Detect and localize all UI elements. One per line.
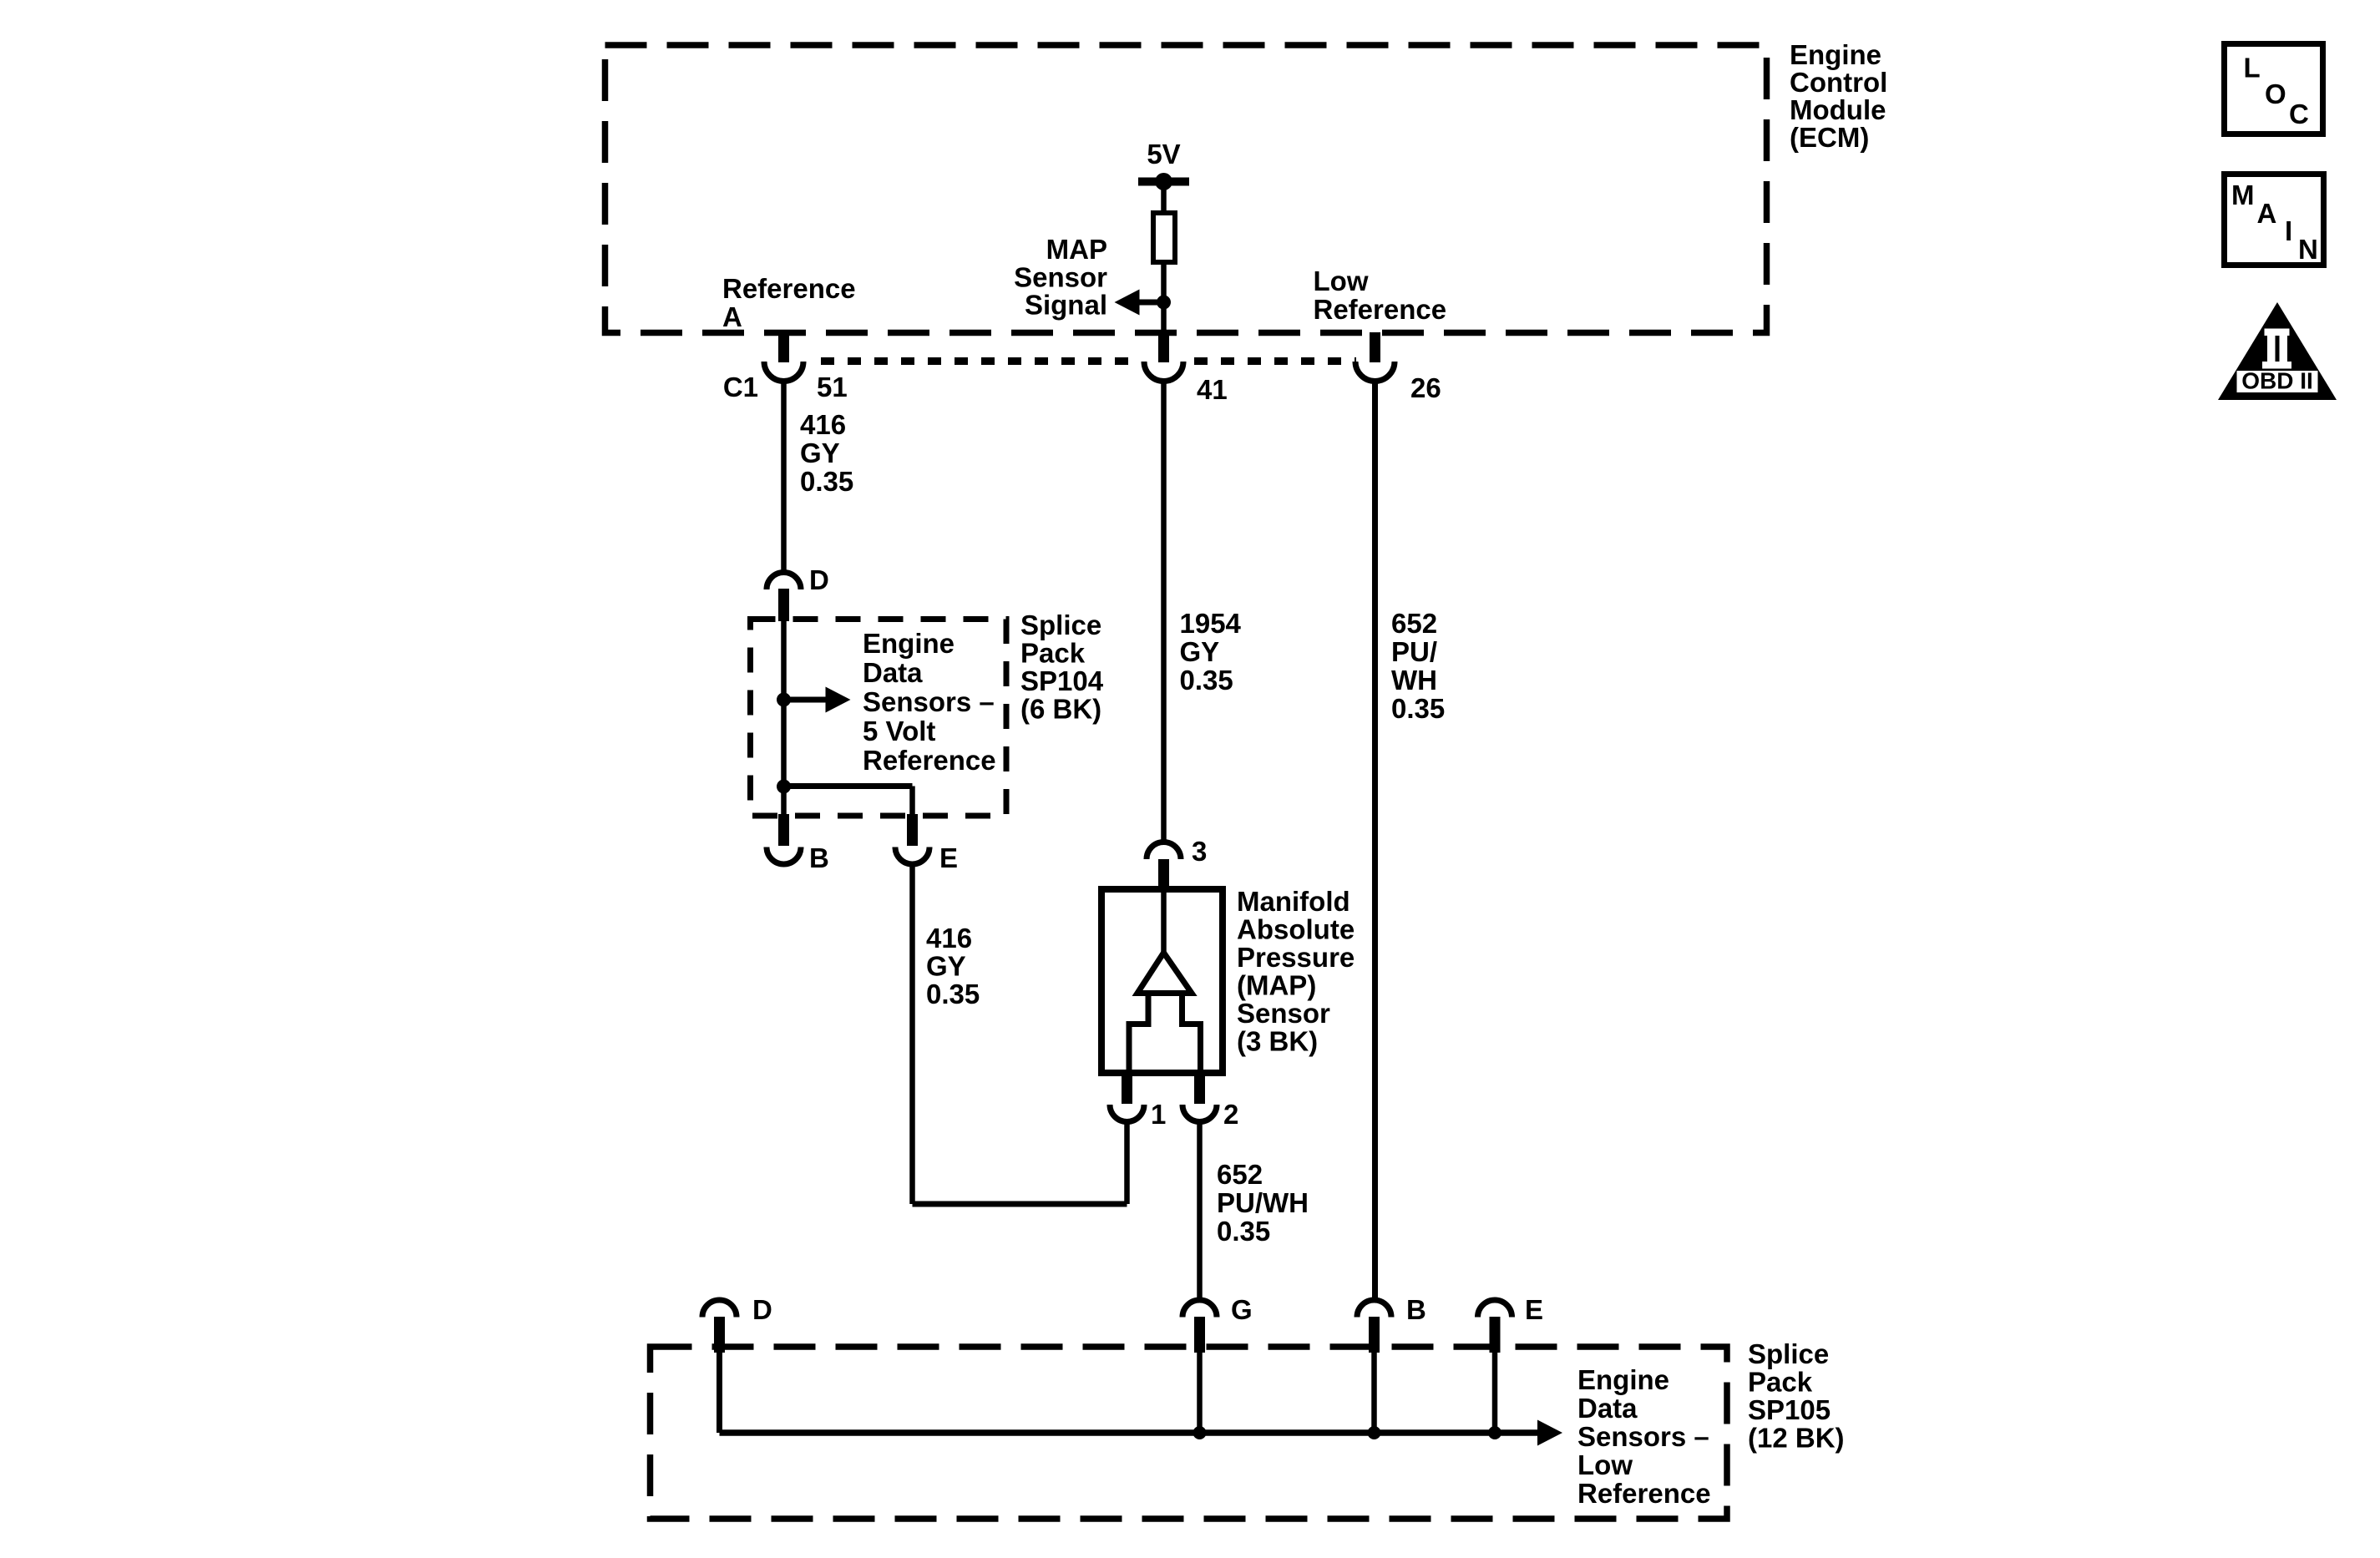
node MAP Sensor Signal junction dot [1157, 296, 1171, 310]
Splice Pack SP105 dashed box [651, 1347, 1728, 1519]
MAP sensing element triangle [1137, 953, 1192, 994]
wire branch to connector E [784, 783, 913, 789]
wire rise to MAP pin 1 [1124, 1119, 1130, 1204]
svg-text:(6 BK): (6 BK) [1020, 694, 1101, 725]
svg-text:Reference: Reference [1314, 294, 1447, 325]
wire splice bus D to B inside SP104 [781, 621, 787, 816]
Manifold Absolute Pressure (MAP) Sensor box [1101, 889, 1223, 1073]
wire B to bus [1371, 1351, 1377, 1433]
svg-text:D: D [752, 1294, 772, 1325]
wire resistor to signal node [1161, 262, 1167, 302]
arrow to Engine Data Sensors 5 Volt Reference [826, 687, 851, 713]
svg-text:Engine: Engine [1577, 1364, 1669, 1395]
svg-text:OBD II: OBD II [2241, 368, 2313, 394]
connector E (SP104) stub [907, 814, 918, 846]
svg-text:41: 41 [1197, 374, 1228, 405]
svg-text:Sensor: Sensor [1014, 261, 1107, 292]
junction dot splice branch to E [777, 780, 791, 794]
svg-text:Sensor: Sensor [1237, 998, 1330, 1029]
junction dot E [1488, 1426, 1501, 1439]
Splice Pack SP104 dashed box [751, 620, 1007, 817]
svg-text:0.35: 0.35 [1180, 665, 1233, 696]
svg-text:N: N [2298, 234, 2318, 265]
svg-text:652: 652 [1391, 608, 1437, 639]
svg-text:Low: Low [1314, 266, 1369, 296]
svg-text:3: 3 [1192, 836, 1207, 867]
svg-text:Pack: Pack [1020, 638, 1086, 669]
svg-text:SP104: SP104 [1020, 665, 1104, 696]
svg-text:416: 416 [926, 923, 972, 954]
svg-text:C1: C1 [723, 372, 758, 402]
LOC legend box [2225, 44, 2323, 134]
svg-text:26: 26 [1410, 372, 1441, 403]
connector B (SP104) cup [767, 847, 801, 865]
wire horizontal run to MAP pin 1 [913, 1201, 1127, 1207]
connector D (SP104) arch [767, 572, 801, 589]
svg-text:(MAP): (MAP) [1237, 970, 1316, 1001]
svg-text:Sensors –: Sensors – [863, 686, 995, 717]
svg-text:51: 51 [817, 372, 848, 402]
svg-text:M: M [2231, 180, 2255, 210]
svg-text:Module: Module [1790, 94, 1886, 125]
connector G stub [1194, 1317, 1205, 1353]
svg-text:WH: WH [1391, 665, 1437, 696]
svg-text:Control: Control [1790, 67, 1887, 98]
svg-text:E: E [939, 842, 958, 873]
svg-text:Reference: Reference [722, 273, 856, 304]
svg-text:Absolute: Absolute [1237, 914, 1355, 945]
junction dot B [1368, 1426, 1381, 1439]
svg-text:C: C [2289, 99, 2309, 129]
svg-text:652: 652 [1217, 1159, 1263, 1190]
svg-text:B: B [1406, 1294, 1426, 1325]
svg-text:PU/: PU/ [1391, 636, 1437, 667]
connector G arch [1182, 1300, 1217, 1318]
connector C1 face line (dotted) [821, 357, 1142, 365]
OBD II triangle symbol [2218, 302, 2337, 400]
connector 3 arch [1147, 842, 1181, 860]
MAIN legend box [2225, 175, 2324, 266]
svg-text:MAP: MAP [1046, 234, 1107, 265]
connector E (SP104) cup [895, 847, 929, 865]
svg-text:Pack: Pack [1748, 1367, 1813, 1398]
svg-text:Splice: Splice [1020, 610, 1101, 640]
wire 416 GY from E down [909, 865, 915, 1204]
pin 41 female cup [1144, 362, 1183, 382]
5V supply rail bar [1138, 178, 1189, 186]
svg-text:1954: 1954 [1180, 608, 1242, 639]
connector E (SP105) arch [1477, 1300, 1512, 1318]
svg-text:L: L [2244, 53, 2261, 83]
wire 652 PU/WH from pin 26 down to SP105 connector B [1372, 380, 1378, 1301]
svg-text:Data: Data [1577, 1393, 1638, 1424]
connector D (SP105) stub [714, 1317, 725, 1353]
connector D stub [778, 589, 789, 621]
wire to Engine Data Sensors arrow [784, 697, 828, 703]
connector D (SP105) arch [702, 1300, 737, 1318]
junction dot G [1193, 1426, 1207, 1439]
MAP pin 1 cup [1110, 1105, 1144, 1122]
pin 51 female cup [764, 362, 803, 382]
wire D to splice bus [717, 1351, 722, 1433]
pin 51 male stub [778, 332, 789, 362]
wire 5V rail to resistor [1161, 181, 1167, 213]
junction dot splice tap [777, 693, 791, 707]
svg-text:D: D [809, 564, 829, 595]
svg-text:Reference: Reference [863, 745, 996, 776]
svg-text:Engine: Engine [863, 628, 955, 659]
svg-text:2: 2 [1223, 1099, 1238, 1130]
svg-text:SP105: SP105 [1748, 1394, 1831, 1425]
connector B (SP105) arch [1357, 1300, 1391, 1318]
resistor (ECM internal pull-up) [1153, 213, 1175, 262]
pin 26 female cup [1355, 362, 1395, 382]
svg-text:I: I [2285, 215, 2292, 246]
svg-text:Low: Low [1577, 1449, 1633, 1480]
wire G to bus [1197, 1351, 1203, 1433]
connector E (SP105) stub [1490, 1317, 1501, 1353]
wire 652 PU/WH from MAP pin 2 to SP105 connector G [1197, 1122, 1203, 1301]
splice bus low reference [720, 1429, 1538, 1436]
svg-text:Engine: Engine [1790, 39, 1881, 70]
svg-text:(3 BK): (3 BK) [1237, 1026, 1318, 1057]
svg-text:PU/WH: PU/WH [1217, 1187, 1309, 1218]
svg-text:Splice: Splice [1748, 1338, 1829, 1369]
svg-text:0.35: 0.35 [800, 466, 853, 497]
svg-text:Pressure: Pressure [1237, 942, 1355, 973]
arrow to MAP Sensor Signal [1115, 290, 1140, 316]
svg-text:(ECM): (ECM) [1790, 122, 1869, 153]
svg-text:0.35: 0.35 [1217, 1216, 1270, 1247]
svg-text:Manifold: Manifold [1237, 886, 1350, 917]
svg-text:GY: GY [926, 951, 966, 982]
svg-text:1: 1 [1151, 1099, 1166, 1130]
svg-text:GY: GY [1180, 636, 1220, 667]
svg-text:(12 BK): (12 BK) [1748, 1423, 1845, 1454]
svg-text:Data: Data [863, 657, 923, 688]
MAP sensing element pedestal [1129, 994, 1148, 1074]
MAP pin 1 stub [1122, 1073, 1132, 1104]
svg-text:0.35: 0.35 [926, 979, 980, 1009]
svg-text:Signal: Signal [1025, 290, 1107, 321]
junction dot at 5V rail [1155, 173, 1172, 190]
arrow bus to Engine Data Sensors Low Reference [1537, 1420, 1562, 1446]
connector 3 stub [1158, 859, 1169, 890]
svg-text:5V: 5V [1147, 139, 1180, 169]
wire E to bus [1492, 1351, 1498, 1433]
svg-text:B: B [809, 842, 829, 873]
svg-text:Reference: Reference [1577, 1478, 1711, 1509]
connector B (SP104) stub [778, 814, 789, 846]
wire 416 GY from pin 51 to splice pack connector D [781, 380, 787, 573]
svg-text:416: 416 [800, 409, 846, 440]
connector B (SP105) stub [1369, 1317, 1380, 1353]
svg-text:Sensors –: Sensors – [1577, 1421, 1709, 1452]
svg-text:E: E [1525, 1294, 1543, 1325]
wire signal node to arrow [1139, 300, 1164, 306]
wire signal node to pin 41 [1161, 302, 1167, 336]
pin 41 male stub [1158, 332, 1169, 362]
svg-text:A: A [722, 301, 742, 332]
svg-text:5 Volt: 5 Volt [863, 716, 935, 746]
Engine Control Module (ECM) dashed enclosure box [605, 45, 1767, 333]
svg-text:0.35: 0.35 [1391, 693, 1445, 724]
svg-text:G: G [1231, 1294, 1253, 1325]
wire pin3 into sensor element [1161, 888, 1167, 955]
svg-text:O: O [2265, 78, 2286, 109]
MAP pin 2 stub [1194, 1073, 1205, 1104]
svg-text:A: A [2257, 198, 2277, 229]
wire 1954 GY from pin 41 to MAP sensor pin 3 [1161, 380, 1167, 843]
OBD II label plate [2237, 371, 2318, 392]
MAP pin 2 cup [1182, 1105, 1217, 1122]
svg-text:GY: GY [800, 438, 840, 468]
OBD II pillar glyph [2265, 329, 2290, 336]
pin 26 male stub [1370, 332, 1380, 362]
